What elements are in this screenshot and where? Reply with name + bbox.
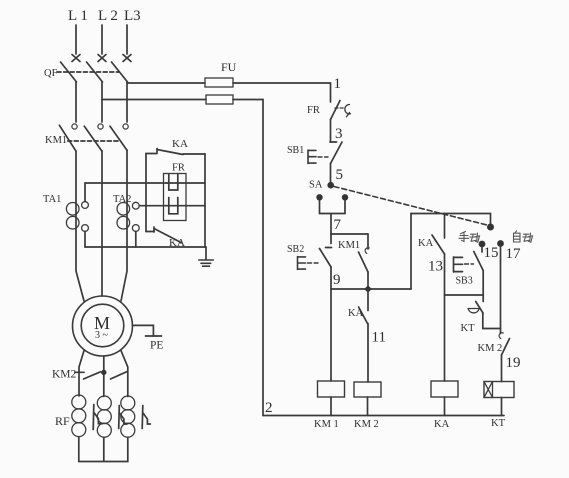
thermal contact FR NC blade xyxy=(331,101,341,120)
fuse FU element1 xyxy=(205,78,233,87)
svg-text:L3: L3 xyxy=(124,8,141,24)
selector SA position dot left xyxy=(316,194,322,200)
resistor RF coil3 arrow xyxy=(142,406,150,429)
contactor KM2 aux blade xyxy=(502,339,510,356)
svg-text:L 1: L 1 xyxy=(68,8,88,24)
contactor KM2 blade2 xyxy=(111,372,127,379)
pushbutton SB1 dashes xyxy=(318,156,328,158)
selector SA dashed linkage xyxy=(334,187,489,226)
contactor KM1 aux blade xyxy=(359,252,369,272)
resistor RF coil3 loops xyxy=(121,396,135,410)
wire phase L1 drop xyxy=(75,25,77,54)
coil KM2 wire bottom xyxy=(367,397,369,416)
svg-text:13: 13 xyxy=(428,259,443,275)
contactor KM1 aux upper wire xyxy=(367,234,369,249)
coil KM1 wire top xyxy=(330,289,332,381)
pushbutton SB1 tick xyxy=(330,141,337,143)
timer contact KT blade xyxy=(476,302,483,314)
coil KA box xyxy=(431,381,458,397)
relay KA branch upper wire xyxy=(444,214,446,239)
CT TA2 primary loops xyxy=(117,203,130,216)
selector SA position dot right xyxy=(342,194,348,200)
motor M inner circle xyxy=(81,304,124,347)
wire bottom rail xyxy=(263,415,504,417)
svg-text:KM1: KM1 xyxy=(338,240,360,251)
wire PE tail xyxy=(132,325,153,336)
wire phase L3 drop xyxy=(126,25,128,54)
wire rotor line3 xyxy=(121,351,128,397)
thermal contact FR dashes xyxy=(335,107,344,109)
CT TA2 secondary top terminal xyxy=(132,202,139,209)
svg-text:KA: KA xyxy=(172,138,188,150)
CT TA1 secondary top wire to FR xyxy=(85,183,167,202)
wire B fuse2 to left control drop xyxy=(233,100,263,416)
selector SA deck1 stubs and bar xyxy=(320,201,346,235)
thermal relay FR element2 out wire xyxy=(167,205,205,207)
svg-text:SB2: SB2 xyxy=(287,244,304,255)
svg-text:KM 2: KM 2 xyxy=(354,419,379,430)
CT TA1 secondary bottom terminal xyxy=(82,225,89,232)
wire dot17 branch down xyxy=(500,247,502,334)
contactor KM1 pole2 fixed circle xyxy=(98,124,103,129)
wire junction13 horizontal xyxy=(445,294,484,296)
contactor KM1 aux hook xyxy=(365,248,369,254)
wire A pole3 to fuse xyxy=(127,82,205,84)
svg-text:QF: QF xyxy=(44,68,58,79)
svg-text:3: 3 xyxy=(335,126,343,142)
contactor KM1 linkage dashed xyxy=(68,140,119,142)
thermal contact FR release hook xyxy=(345,104,351,116)
svg-text:15: 15 xyxy=(484,245,499,261)
CT TA1 secondary top terminal xyxy=(82,202,89,209)
svg-text:SB1: SB1 xyxy=(287,145,304,156)
wire deck2 top horizontal xyxy=(411,214,491,225)
ground PE bar xyxy=(146,335,162,337)
timer contact KT wire xyxy=(482,295,484,302)
coil KA wire bottom xyxy=(444,397,446,416)
CT TA1 secondary bottom stub xyxy=(84,231,86,247)
timer contact KT delay symbol xyxy=(468,309,479,313)
contactor KM2 aux hook xyxy=(499,333,503,339)
svg-text:3 ~: 3 ~ xyxy=(95,330,109,341)
svg-text:L 2: L 2 xyxy=(98,8,118,24)
wire junction to deck2 riser xyxy=(410,214,412,290)
fuse FU element2 xyxy=(206,95,233,104)
thermal relay FR element1 out wire xyxy=(167,182,205,184)
svg-text:KM 2: KM 2 xyxy=(478,343,503,354)
relay contact KA upper blade xyxy=(157,150,183,155)
pushbutton SB2 E head xyxy=(298,257,306,270)
wire A fuse to control corner xyxy=(233,83,331,102)
contactor KM1 pole3 blade xyxy=(110,126,127,150)
wire pole1 QF to KM1 xyxy=(75,82,77,122)
wire rotor line1 xyxy=(79,351,84,396)
svg-text:KM 1: KM 1 xyxy=(314,419,339,430)
wire KM2 aux to KT coil xyxy=(501,355,503,382)
svg-text:9: 9 xyxy=(333,272,341,288)
relay contact KA11 upper wire xyxy=(367,289,369,311)
CT TA2 secondary bottom stub xyxy=(135,231,137,247)
motor M outer circle xyxy=(73,296,133,356)
CT TA2 secondary top wire to FR xyxy=(139,205,167,207)
svg-text:19: 19 xyxy=(506,355,521,371)
pushbutton SB1 blade xyxy=(331,142,343,164)
svg-text:KT: KT xyxy=(461,323,476,334)
CT TA2 secondary bottom terminal xyxy=(132,225,139,232)
svg-text:KM1: KM1 xyxy=(45,135,67,146)
resistor RF coil2 arrow xyxy=(119,406,127,429)
wire pole3 QF to KM1 xyxy=(126,82,128,122)
wire junction9 horizontal xyxy=(331,288,411,290)
svg-text:FU: FU xyxy=(221,60,237,74)
breaker QF pole3 blade xyxy=(112,62,128,82)
pushbutton SB3 dashes xyxy=(465,263,474,265)
svg-text:TA1: TA1 xyxy=(43,194,61,205)
wire pole1 KM1 to motor xyxy=(76,151,84,301)
selector SA pivot dot node5 xyxy=(327,182,334,189)
svg-text:KM2: KM2 xyxy=(52,369,77,381)
pushbutton SB2 blade xyxy=(320,249,332,268)
svg-text:TA2: TA2 xyxy=(113,194,131,205)
coil KM1 box xyxy=(318,381,345,397)
wire CT secondary rail xyxy=(85,246,206,248)
resistor RF coil2 loops xyxy=(97,396,111,410)
resistor RF coil1 loops xyxy=(72,395,86,409)
label shoudong manual xyxy=(459,232,480,243)
selector SA deck2 pivot dot xyxy=(487,224,494,231)
svg-text:5: 5 xyxy=(336,167,344,183)
contactor KM1 pole1 fixed circle xyxy=(72,124,77,129)
wire SB2 to junction xyxy=(330,267,332,289)
wire KM1 aux to junction xyxy=(367,272,369,289)
contactor KM2 junction dot xyxy=(101,370,106,375)
coil KT divider and X xyxy=(484,382,493,398)
svg-text:KT: KT xyxy=(491,418,506,429)
relay contact KA11 blade xyxy=(359,307,368,324)
wire FR to node3 xyxy=(330,120,332,143)
thermal relay FR heater element1 xyxy=(169,174,178,190)
svg-text:KA: KA xyxy=(434,419,450,430)
svg-text:RF: RF xyxy=(55,414,70,428)
label zidong auto xyxy=(514,231,533,242)
thermal relay FR heater box xyxy=(164,174,187,221)
CT TA1 primary loops xyxy=(66,203,79,216)
wire KT contact down and right xyxy=(483,313,501,329)
breaker QF pole3 x-mark xyxy=(123,55,131,62)
relay contact KA upper left stub xyxy=(146,153,157,155)
relay contact KA lower blade xyxy=(154,229,181,243)
pushbutton SB3 E head xyxy=(454,257,463,272)
pushbutton SB1 E head xyxy=(308,150,316,164)
pushbutton SB2 dashes xyxy=(308,262,319,264)
wire RF bottom bar xyxy=(79,437,128,462)
relay contact KA upper right wire xyxy=(183,153,205,155)
breaker QF pole2 blade xyxy=(87,62,103,82)
contactor KM1 pole1 blade xyxy=(59,125,76,151)
contactor KM2 linkage tick xyxy=(75,371,84,373)
wire phase L2 drop xyxy=(101,25,103,54)
ground earth stub xyxy=(205,247,207,260)
svg-text:FR: FR xyxy=(307,105,320,116)
breaker QF linkage dashed xyxy=(57,71,119,73)
wire KA11 to coil KM2 xyxy=(367,324,369,383)
svg-text:7: 7 xyxy=(334,217,342,233)
svg-text:11: 11 xyxy=(372,330,386,346)
contactor KM1 pole2 blade xyxy=(84,126,102,151)
wire SB3 to junction13 xyxy=(482,271,484,296)
pushbutton SB2 tick xyxy=(326,247,332,249)
svg-text:1: 1 xyxy=(334,76,342,92)
wire pole3 KM1 to motor xyxy=(121,150,127,301)
coil KT box xyxy=(484,382,514,398)
relay contact KA aux13 blade xyxy=(432,235,445,254)
svg-text:FR: FR xyxy=(172,163,185,174)
wire KA right vertical xyxy=(204,154,206,247)
ground earth symbol xyxy=(199,260,214,266)
pushbutton SB3 blade xyxy=(474,252,483,271)
svg-text:SB3: SB3 xyxy=(456,276,473,287)
breaker QF pole1 x-mark xyxy=(72,55,80,62)
wire pole2 KM1 to motor xyxy=(101,151,103,296)
breaker QF pole1 blade xyxy=(61,62,77,82)
svg-text:PE: PE xyxy=(150,340,163,352)
selector SA deck2 dot 17 xyxy=(497,240,504,247)
wire SB1 to node5 xyxy=(330,164,332,183)
thermal relay FR heater element2 xyxy=(169,198,178,214)
resistor RF coil1 arrow xyxy=(93,405,102,430)
breaker QF pole2 x-mark xyxy=(98,55,106,62)
relay contact KA upper tick xyxy=(156,149,158,154)
coil KM1 wire bottom xyxy=(330,397,332,416)
contactor KM2 blade1 xyxy=(84,372,101,379)
relay contact KA lower stub xyxy=(146,231,154,233)
svg-text:SA: SA xyxy=(309,180,323,191)
wire B pole2 to fuse2 xyxy=(102,99,206,101)
wire node7 to SB2 xyxy=(330,234,332,244)
svg-text:2: 2 xyxy=(265,400,273,416)
wire KA branch to coil xyxy=(444,254,446,381)
coil KM2 box xyxy=(354,382,381,397)
svg-text:17: 17 xyxy=(506,246,522,262)
node junction9 dot xyxy=(365,286,371,292)
wire rotor line2 xyxy=(103,356,105,397)
wire pole2 QF to KM1 xyxy=(101,82,103,122)
selector SA deck2 dot 15 xyxy=(479,241,486,248)
pushbutton SB3 wire from dot15 xyxy=(481,247,483,252)
relay contact KA lower tick xyxy=(153,227,155,232)
wire node7 split horizontal xyxy=(331,233,368,235)
coil KT wire bottom xyxy=(501,398,503,416)
svg-text:KA: KA xyxy=(418,238,434,249)
wire KA left vertical xyxy=(145,154,147,232)
contactor KM1 pole3 fixed circle xyxy=(123,124,128,129)
